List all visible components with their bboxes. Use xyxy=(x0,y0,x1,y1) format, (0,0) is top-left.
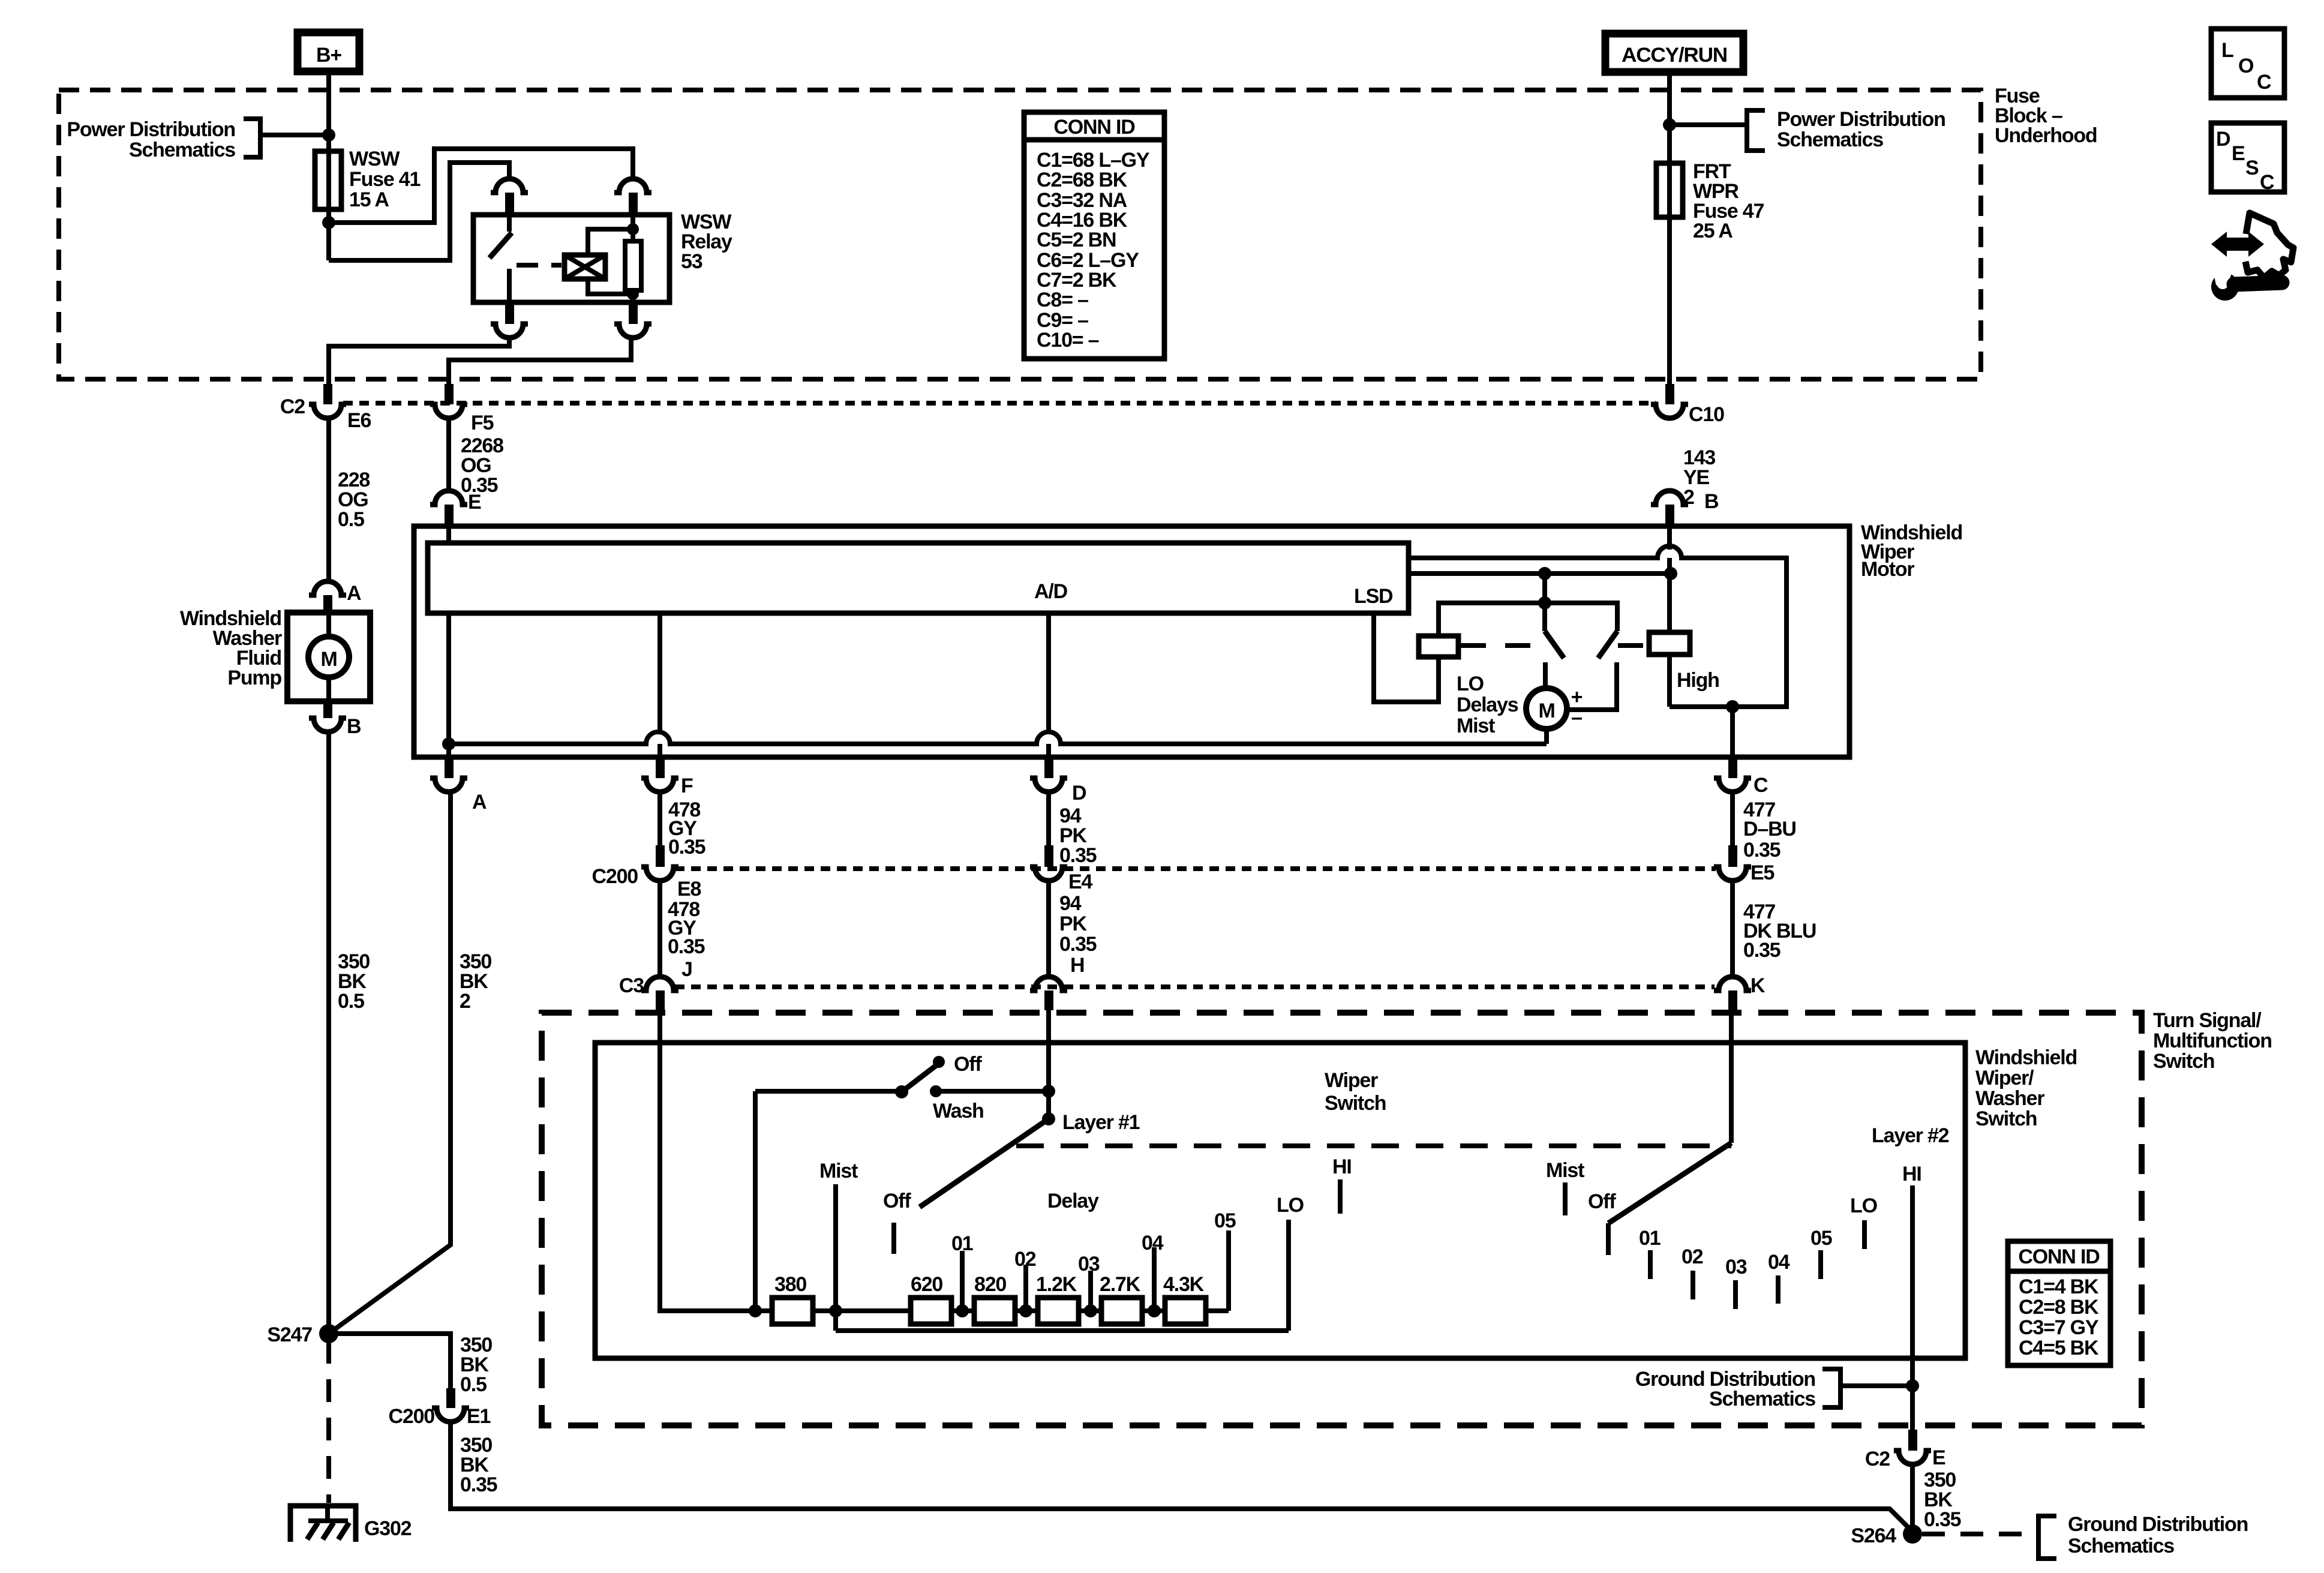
wire to power distribution bracket (right) xyxy=(1670,122,1747,127)
wire J into switch xyxy=(660,1009,772,1311)
svg-text:Wiper: Wiper xyxy=(1325,1069,1378,1092)
label wire 94 PK 0.35 xyxy=(1059,804,1097,867)
node dot feed-row junction xyxy=(749,1304,762,1317)
node S247 splice xyxy=(319,1324,338,1343)
connector line C3 dotted xyxy=(675,984,1715,989)
svg-text:B: B xyxy=(347,715,361,738)
resistor 380 xyxy=(772,1298,813,1324)
contact Off layer2 xyxy=(1606,1223,1611,1255)
svg-text:LO: LO xyxy=(1277,1194,1304,1217)
DESC legend box xyxy=(2211,123,2284,194)
label wire 478 GY 0.35 lower xyxy=(668,898,705,958)
svg-text:Schematics: Schematics xyxy=(1709,1388,1815,1410)
node dot wash pivot xyxy=(895,1085,908,1098)
windshield wiper motor box xyxy=(414,526,1849,757)
label wire 143 YE 2 xyxy=(1683,446,1715,509)
svg-text:03: 03 xyxy=(1725,1256,1747,1278)
label Ground Distribution Schematics right xyxy=(2068,1513,2248,1557)
svg-text:C2=68 BK: C2=68 BK xyxy=(1037,169,1128,191)
svg-text:0.35: 0.35 xyxy=(1059,844,1097,867)
label WSW Relay 53 xyxy=(681,211,732,273)
wire S247 to C200 E1 xyxy=(329,1334,451,1388)
contact 02 layer1 xyxy=(1023,1265,1028,1311)
svg-text:Turn Signal/: Turn Signal/ xyxy=(2153,1009,2262,1032)
label LO Delays Mist xyxy=(1457,673,1518,737)
connector F wiper motor bottom xyxy=(641,760,678,792)
contact 05 layer2 xyxy=(1818,1250,1823,1279)
wire to power distribution bracket (left) xyxy=(260,133,329,137)
relay pin bottom right connector arc xyxy=(629,302,638,324)
svg-text:0.5: 0.5 xyxy=(338,990,364,1013)
contact 01 layer2 xyxy=(1648,1250,1653,1279)
svg-text:C5=2 BN: C5=2 BN xyxy=(1037,229,1116,251)
svg-text:Mist: Mist xyxy=(1457,715,1495,737)
switch blade wash-off xyxy=(902,1062,940,1092)
svg-text:0.35: 0.35 xyxy=(1059,933,1097,956)
svg-text:Ground Distribution: Ground Distribution xyxy=(2068,1513,2248,1536)
svg-text:E1: E1 xyxy=(467,1405,490,1428)
svg-text:04: 04 xyxy=(1768,1251,1790,1274)
svg-text:2: 2 xyxy=(460,990,470,1013)
svg-text:C3: C3 xyxy=(619,974,644,997)
svg-text:Delay: Delay xyxy=(1047,1190,1099,1212)
svg-text:1.2K: 1.2K xyxy=(1036,1273,1077,1296)
park switch left blade xyxy=(1545,603,1564,689)
svg-text:C200: C200 xyxy=(592,865,638,888)
connector B washer pump xyxy=(309,701,346,732)
svg-text:B+: B+ xyxy=(316,44,341,67)
label Windshield Washer Fluid Pump xyxy=(180,607,282,689)
svg-text:380: 380 xyxy=(774,1273,806,1296)
wire E into module xyxy=(446,524,451,543)
svg-text:Power Distribution: Power Distribution xyxy=(1777,108,1945,131)
wire high coil bottom xyxy=(1667,655,1672,707)
svg-text:A: A xyxy=(347,582,361,605)
wire E8 to J xyxy=(657,881,662,978)
label WSW Fuse 41 15 A xyxy=(349,148,421,211)
node dot Off contact xyxy=(933,1056,945,1068)
node dot 02-row junction xyxy=(1019,1304,1032,1317)
connector A washer pump xyxy=(309,581,346,614)
svg-text:H: H xyxy=(1070,954,1084,977)
contact LO layer2 xyxy=(1862,1220,1867,1249)
svg-text:E8: E8 xyxy=(677,878,701,900)
svg-text:B: B xyxy=(1704,490,1719,513)
svg-text:LO: LO xyxy=(1457,673,1484,695)
node S264 splice xyxy=(1903,1524,1922,1544)
svg-text:J: J xyxy=(681,958,692,981)
fuse F41 WSW xyxy=(315,151,341,209)
svg-text:25 A: 25 A xyxy=(1693,220,1733,242)
resistor 820 xyxy=(974,1298,1015,1324)
wire B into motor box xyxy=(1667,524,1672,550)
svg-text:High: High xyxy=(1677,669,1719,692)
label wire 350 BK 2 xyxy=(460,950,491,1013)
svg-text:L: L xyxy=(2221,39,2233,62)
relay pin top right connector arc xyxy=(614,179,651,193)
wire 350 BK 0.5 pump to S247 xyxy=(326,732,331,1334)
svg-text:G302: G302 xyxy=(364,1517,412,1540)
wire to LO coil top xyxy=(1439,603,1545,636)
connector C200 pin E5 xyxy=(1714,845,1751,881)
wire F 478 GY upper xyxy=(657,792,662,845)
wire E1 to S264 long run xyxy=(451,1422,1912,1532)
svg-text:0.35: 0.35 xyxy=(1743,939,1780,962)
svg-text:05: 05 xyxy=(1810,1227,1832,1250)
svg-text:C10= –: C10= – xyxy=(1037,329,1099,352)
ground G302 symbol xyxy=(290,1506,356,1542)
svg-text:D: D xyxy=(2216,128,2230,151)
node dot park switch split xyxy=(1538,596,1551,610)
svg-text:K: K xyxy=(1750,974,1765,997)
label Power Distribution Schematics (right) xyxy=(1777,108,1945,151)
svg-text:820: 820 xyxy=(974,1273,1006,1296)
wire fuse 47 down to C10 xyxy=(1667,217,1672,384)
svg-text:S264: S264 xyxy=(1851,1524,1896,1547)
connector line C2/C10 dotted xyxy=(343,401,1656,406)
layer2 rotary blade xyxy=(1608,1143,1731,1223)
wire feed down to resistor row xyxy=(753,1091,758,1311)
svg-text:0.35: 0.35 xyxy=(668,836,705,858)
svg-text:01: 01 xyxy=(1639,1227,1661,1250)
wire C output down xyxy=(1730,707,1735,757)
label wire 94 PK 0.35 lower xyxy=(1059,892,1097,956)
svg-text:PK: PK xyxy=(1059,912,1087,935)
svg-text:Wiper/: Wiper/ xyxy=(1975,1067,2034,1089)
wire F from module xyxy=(657,613,662,733)
svg-text:Motor: Motor xyxy=(1861,558,1914,581)
svg-text:Washer: Washer xyxy=(1975,1087,2044,1110)
wire relay coil return to F5 xyxy=(449,338,631,384)
dashed actuation LO coil xyxy=(1461,643,1539,648)
svg-text:0.35: 0.35 xyxy=(1743,839,1780,861)
wire LSD low-side driver output xyxy=(1374,613,1439,702)
svg-text:15 A: 15 A xyxy=(349,188,389,211)
wire Mist contact layer1 xyxy=(833,1184,838,1331)
contact HI layer1 xyxy=(1338,1179,1343,1214)
svg-text:HI: HI xyxy=(1332,1155,1352,1178)
LOC legend box xyxy=(2211,29,2284,98)
CONN ID table switch xyxy=(2008,1241,2110,1365)
wire B+ feed xyxy=(326,71,331,151)
svg-text:620: 620 xyxy=(911,1273,942,1296)
svg-text:Fuse 41: Fuse 41 xyxy=(349,168,421,191)
node dot C output xyxy=(1726,700,1739,713)
svg-text:Switch: Switch xyxy=(1325,1092,1386,1115)
svg-text:C: C xyxy=(2257,71,2271,94)
node fuse output junction dot xyxy=(322,216,335,229)
wire E5 to K xyxy=(1730,881,1735,978)
label wire 350 BK 0.35 E1 xyxy=(460,1434,497,1496)
wire staircase to relay switch pin xyxy=(329,163,509,260)
wire staircase to relay coil pin xyxy=(329,149,633,223)
fuse F47 FRT WPR xyxy=(1656,72,1683,217)
node dot park feed xyxy=(1538,567,1551,580)
dashed wire S264 to ground distribution xyxy=(1922,1532,2037,1536)
svg-text:M: M xyxy=(1538,700,1554,722)
svg-text:53: 53 xyxy=(681,250,702,273)
svg-text:C2: C2 xyxy=(280,395,305,418)
svg-text:C4=5 BK: C4=5 BK xyxy=(2019,1337,2099,1359)
bracket ground distribution schematics right xyxy=(2038,1516,2056,1559)
svg-text:Mist: Mist xyxy=(1546,1159,1584,1182)
svg-text:LO: LO xyxy=(1850,1194,1878,1217)
svg-text:LSD: LSD xyxy=(1354,585,1393,608)
svg-text:Windshield: Windshield xyxy=(1975,1046,2077,1069)
svg-text:Multifunction: Multifunction xyxy=(2153,1029,2272,1052)
resistor 4.3K xyxy=(1165,1298,1206,1324)
relay coil parallel loop wires xyxy=(588,223,639,300)
svg-text:Wash: Wash xyxy=(933,1100,984,1122)
contact 02 layer2 xyxy=(1691,1271,1695,1299)
resistor 620 xyxy=(911,1298,951,1324)
wire E to S264 xyxy=(1910,1464,1915,1534)
svg-text:D–BU: D–BU xyxy=(1743,818,1796,840)
wire relay switch output to C2-E6 xyxy=(329,338,509,384)
wire C 477 D-BU upper xyxy=(1730,792,1735,845)
wiper motor module bar xyxy=(428,543,1409,613)
svg-text:Pump: Pump xyxy=(227,667,281,689)
service icon arrows connector wrench xyxy=(2211,213,2293,301)
node dot A branch xyxy=(442,737,455,751)
connector C3 pin H xyxy=(1030,977,1067,1010)
connector A wiper motor bottom xyxy=(430,760,467,792)
connector C200 pin E4 xyxy=(1030,845,1067,881)
svg-text:O: O xyxy=(2238,55,2254,77)
wire ground distribution tap xyxy=(1840,1383,1912,1388)
label wire 228 OG 0.5 xyxy=(338,469,370,531)
svg-text:A/D: A/D xyxy=(1034,580,1068,603)
svg-text:Off: Off xyxy=(883,1190,911,1212)
svg-text:WSW: WSW xyxy=(349,148,400,170)
svg-text:02: 02 xyxy=(1682,1245,1703,1268)
LO relay coil xyxy=(1419,636,1458,657)
resistor row wire segments xyxy=(772,1308,1229,1313)
svg-text:Power Distribution: Power Distribution xyxy=(67,118,235,141)
power node B+ box xyxy=(298,32,359,71)
contact 03 layer1 xyxy=(1088,1271,1093,1311)
relay pin bottom left connector arc xyxy=(505,302,514,324)
connector C wiper motor bottom xyxy=(1714,760,1751,792)
svg-text:94: 94 xyxy=(1059,892,1082,915)
node dot B line3 xyxy=(1664,567,1677,580)
svg-text:Layer #1: Layer #1 xyxy=(1062,1111,1140,1134)
wire module line3 to park switch feed xyxy=(1409,571,1671,576)
wire fuse output down xyxy=(326,209,331,260)
connector C3 pin K xyxy=(1714,977,1751,1010)
node dot Wash contact xyxy=(930,1085,942,1097)
wire motor bottom to return line xyxy=(1544,729,1549,744)
relay coil symbol with X xyxy=(565,255,605,279)
CONN ID table fuse block xyxy=(1024,112,1164,359)
node dot 04-row junction xyxy=(1148,1304,1161,1317)
svg-text:C1=4 BK: C1=4 BK xyxy=(2019,1275,2099,1298)
wire module line2 to high contact loop with hop over B xyxy=(1409,546,1786,707)
relay resistor element xyxy=(625,215,641,302)
label Wiper Switch xyxy=(1325,1069,1386,1115)
svg-text:M: M xyxy=(320,648,337,671)
svg-text:0.5: 0.5 xyxy=(460,1373,487,1396)
label Turn Signal Multifunction Switch xyxy=(2153,1009,2272,1073)
svg-text:0.35: 0.35 xyxy=(1924,1508,1961,1531)
node junction dot at power distribution tap xyxy=(322,128,335,142)
svg-text:0.5: 0.5 xyxy=(338,508,364,531)
svg-text:Underhood: Underhood xyxy=(1995,124,2097,147)
label wire 478 GY 0.35 xyxy=(668,798,705,858)
label wire 477 DK BLU 0.35 xyxy=(1743,900,1816,962)
svg-text:2.7K: 2.7K xyxy=(1100,1273,1141,1296)
wire A branch down xyxy=(329,792,451,1334)
svg-text:Delays: Delays xyxy=(1457,694,1518,716)
label wire 350 BK 0.5 xyxy=(338,950,370,1013)
washer fluid pump box xyxy=(287,613,370,701)
label Windshield Wiper Motor xyxy=(1861,521,1962,581)
svg-text:CONN ID: CONN ID xyxy=(2018,1245,2100,1268)
wire E4 to H xyxy=(1046,881,1051,978)
svg-text:0.35: 0.35 xyxy=(460,1473,497,1496)
bracket ground distribution schematics left xyxy=(1822,1369,1840,1407)
node dot 03-row junction xyxy=(1084,1304,1097,1317)
svg-text:A: A xyxy=(472,791,487,813)
bracket power distribution schematics left xyxy=(244,119,260,157)
connector C200 pin E8 xyxy=(641,845,678,881)
park switch right blade xyxy=(1545,603,1617,710)
svg-text:C: C xyxy=(1753,774,1768,797)
svg-text:05: 05 xyxy=(1214,1209,1236,1232)
svg-text:E: E xyxy=(2232,142,2245,165)
svg-text:Schematics: Schematics xyxy=(1777,128,1883,151)
label wire 2268 OG 0.35 xyxy=(461,434,503,497)
label Windshield Wiper Washer Switch xyxy=(1975,1046,2077,1130)
svg-text:C8= –: C8= – xyxy=(1037,289,1088,311)
high relay coil xyxy=(1649,632,1690,655)
relay K53 WSW box xyxy=(473,215,669,302)
svg-text:E: E xyxy=(468,491,481,514)
contact 05 layer1 xyxy=(1226,1230,1231,1311)
label wire 350 BK 0.5 E1 xyxy=(460,1334,492,1396)
wire D 94 PK upper xyxy=(1046,792,1051,845)
node dot mist-row junction xyxy=(829,1304,842,1317)
contact Mist layer2 xyxy=(1563,1182,1568,1215)
svg-text:Switch: Switch xyxy=(1975,1107,2037,1130)
svg-text:C3=7 GY: C3=7 GY xyxy=(2019,1316,2099,1339)
svg-text:C2=8 BK: C2=8 BK xyxy=(2019,1296,2099,1319)
connector C10 pin xyxy=(1651,384,1688,418)
svg-text:F5: F5 xyxy=(471,412,494,434)
svg-text:E6: E6 xyxy=(347,409,371,432)
wire wash contact to H xyxy=(936,1089,1049,1094)
connector C200 pin E1 xyxy=(432,1388,469,1422)
svg-text:S247: S247 xyxy=(267,1323,312,1346)
relay switch contact xyxy=(490,215,512,302)
power node ACCY/RUN box xyxy=(1605,34,1743,72)
wire wash-off feed xyxy=(755,1089,902,1094)
node dot layer1 pivot xyxy=(1042,1112,1055,1125)
svg-text:Off: Off xyxy=(1588,1190,1616,1213)
connector D wiper motor bottom xyxy=(1030,760,1067,792)
svg-text:E5: E5 xyxy=(1750,861,1774,884)
wire D from module xyxy=(1046,613,1051,733)
svg-text:Off: Off xyxy=(954,1053,982,1076)
contact 03 layer2 xyxy=(1733,1280,1738,1309)
connector B wiper motor xyxy=(1651,491,1688,524)
svg-text:C2: C2 xyxy=(1865,1448,1890,1470)
label wire 477 D-BU 0.35 xyxy=(1743,798,1796,861)
svg-text:C: C xyxy=(2260,171,2274,194)
svg-text:CONN ID: CONN ID xyxy=(1053,116,1135,139)
contact 04 layer2 xyxy=(1776,1275,1780,1304)
wire mist-LO tie xyxy=(836,1328,1289,1333)
relay pin top left connector arc xyxy=(491,179,528,193)
contact Off layer1 xyxy=(891,1223,896,1254)
wire LO layer1 xyxy=(1286,1220,1291,1331)
turn signal multifunction switch dashed box xyxy=(542,1013,2142,1425)
washer pump motor M xyxy=(308,614,349,701)
svg-text:Schematics: Schematics xyxy=(2068,1535,2174,1557)
node dot 01-row junction xyxy=(956,1304,969,1317)
wiper motor M xyxy=(1526,688,1567,729)
layer separator dashed xyxy=(1016,1143,1731,1148)
svg-text:C10: C10 xyxy=(1689,403,1724,426)
label Ground Distribution Schematics xyxy=(1635,1368,1815,1410)
label wire 350 BK 0.35 bottom xyxy=(1924,1469,1961,1531)
fuse block underhood dashed box xyxy=(59,90,1981,379)
svg-text:E4: E4 xyxy=(1068,870,1092,893)
svg-text:Switch: Switch xyxy=(2153,1050,2214,1073)
svg-text:C200: C200 xyxy=(389,1405,435,1428)
svg-text:D: D xyxy=(1072,782,1086,804)
contact 01 layer1 xyxy=(960,1251,965,1311)
connector C2 pin E bottom xyxy=(1894,1430,1931,1464)
connector C2 pin E6 xyxy=(309,384,346,418)
dashed wire S247 to G302 xyxy=(326,1341,331,1503)
svg-text:0.35: 0.35 xyxy=(668,935,705,958)
svg-text:Schematics: Schematics xyxy=(129,139,235,161)
connector E wiper motor xyxy=(430,491,467,524)
wire F5 to E xyxy=(446,418,451,492)
wire K into switch xyxy=(1729,1009,1734,1143)
connector line C200 dotted xyxy=(675,866,1716,871)
connector C3 pin J xyxy=(641,977,678,1010)
dashed actuation high coil xyxy=(1618,643,1649,648)
svg-text:HI: HI xyxy=(1902,1163,1921,1185)
svg-text:ACCY/RUN: ACCY/RUN xyxy=(1622,44,1727,67)
wire module to A output xyxy=(446,613,451,757)
wire HI layer2 down xyxy=(1910,1185,1915,1430)
node dot HI ground tap xyxy=(1906,1379,1919,1392)
node dot H wash junction xyxy=(1042,1085,1055,1098)
svg-text:F: F xyxy=(681,775,693,797)
label Fuse Block - Underhood xyxy=(1995,85,2097,147)
resistor 1.2K xyxy=(1038,1298,1079,1324)
wire motor return with hops xyxy=(449,732,1547,744)
resistor 2.7K xyxy=(1101,1298,1142,1324)
svg-text:Mist: Mist xyxy=(819,1160,858,1182)
bracket power distribution schematics right xyxy=(1747,110,1765,151)
relay actuation dashed link xyxy=(517,263,562,268)
wire H into switch xyxy=(1046,1009,1051,1119)
contact 04 layer1 xyxy=(1152,1247,1157,1311)
svg-text:+: + xyxy=(1571,686,1583,709)
svg-text:S: S xyxy=(2245,157,2259,179)
layer1 rotary blade xyxy=(920,1119,1049,1207)
label FRT WPR Fuse 47 25 A xyxy=(1693,160,1764,242)
windshield wiper washer switch box xyxy=(595,1043,1965,1358)
svg-text:–: – xyxy=(1571,706,1582,729)
svg-text:Layer #2: Layer #2 xyxy=(1872,1124,1949,1147)
label Power Distribution Schematics (left) xyxy=(67,118,235,161)
wire 228 OG 0.5 xyxy=(326,418,331,581)
